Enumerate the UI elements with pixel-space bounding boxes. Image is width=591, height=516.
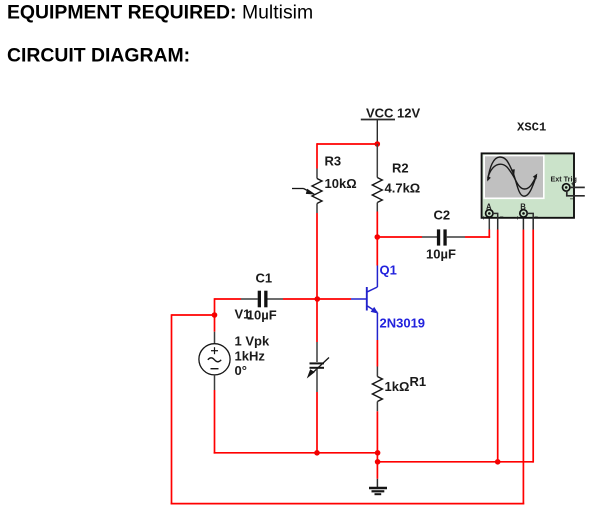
wire R2 to collector node (376, 212, 378, 238)
terminal Ext Trig (563, 184, 570, 191)
svg-text:−: − (534, 214, 538, 221)
terminal A (486, 210, 493, 217)
node VCC junction dot (375, 141, 381, 147)
svg-text:CIRCUIT DIAGRAM:: CIRCUIT DIAGRAM: (7, 45, 190, 67)
wire left vertical (input to bottom return) (171, 314, 173, 504)
svg-text:XSC1: XSC1 (517, 121, 546, 135)
scope trace arrowheads (487, 176, 491, 182)
resistor R3 (potentiometer) (312, 169, 322, 214)
wire variable capacitor to bottom rail (316, 369, 318, 453)
node R3 bottom junction dot (314, 450, 320, 456)
wire input node to left rail (172, 314, 215, 316)
svg-text:−: − (570, 196, 574, 203)
source V1 (199, 344, 230, 375)
wire V1 bottom to bottom rail (214, 375, 216, 454)
label V1 values (235, 334, 270, 378)
svg-text:EQUIPMENT REQUIRED:: EQUIPMENT REQUIRED: (7, 2, 236, 24)
wire emitter to R1 (376, 340, 378, 377)
svg-text:+: + (482, 215, 486, 222)
wire scope A- to ground rail (493, 213, 499, 461)
node base junction dot (315, 296, 321, 302)
wire C1 to V1 top (215, 298, 242, 344)
R3 wiper arrow (292, 189, 316, 195)
wire bottom return (B+ to input node) (171, 503, 525, 505)
scope waveform trace 2 (488, 164, 536, 189)
svg-text:0°: 0° (235, 363, 247, 378)
wire top rail (VCC node) (317, 143, 377, 145)
svg-text:1kHz: 1kHz (235, 348, 266, 363)
wire VCC bar to top rail (376, 120, 378, 145)
wire Ext Trig - stub (567, 191, 585, 196)
svg-text:R3: R3 (325, 154, 342, 169)
scope waveform trace 1 (488, 157, 537, 196)
terminal B (520, 210, 527, 217)
ground (369, 462, 387, 494)
power VCC symbol bar (361, 119, 395, 121)
heading EQUIPMENT REQUIRED: Multisim (7, 2, 313, 24)
wire C2 node to capacitor (377, 236, 437, 238)
wire R1 to ground rail (376, 411, 378, 462)
svg-text:C2: C2 (434, 208, 451, 223)
wire base node (283, 298, 351, 300)
variable capacitor (R3 branch) (307, 358, 329, 379)
wire scope B- to ground rail corner (527, 213, 534, 462)
svg-text:2N3019: 2N3019 (380, 316, 426, 331)
svg-text:1 Vpk: 1 Vpk (235, 334, 270, 349)
svg-text:VCC: VCC (366, 106, 394, 121)
wire R3 to variable capacitor (316, 213, 318, 362)
capacitor C2 (437, 229, 447, 245)
node ground junction dot (375, 459, 381, 465)
wire scope B+ down to bottom wire (522, 217, 524, 504)
resistor R2 (372, 178, 382, 212)
wire C2 to scope channel A (447, 217, 490, 238)
svg-text:1kΩ: 1kΩ (385, 379, 410, 394)
wire bottom rail right (377, 461, 533, 463)
svg-text:R2: R2 (392, 160, 409, 175)
wire Ext Trig + stub (570, 186, 585, 188)
wire R2 branch top stub (376, 144, 378, 178)
svg-text:12V: 12V (397, 106, 420, 121)
resistor R1 (372, 377, 382, 412)
svg-text:−: − (500, 214, 504, 221)
svg-text:C1: C1 (256, 271, 273, 286)
svg-text:Q1: Q1 (380, 263, 397, 278)
node emitter rail junction dot (375, 450, 381, 456)
node scope A- junction dot (495, 459, 501, 465)
node collector/C2 junction dot (375, 234, 381, 240)
svg-text:10µF: 10µF (247, 308, 277, 323)
svg-text:4.7kΩ: 4.7kΩ (385, 181, 421, 196)
svg-text:10kΩ: 10kΩ (325, 176, 357, 191)
svg-text:R1: R1 (410, 374, 427, 389)
svg-text:+: + (516, 215, 520, 222)
svg-text:10µF: 10µF (426, 247, 456, 262)
oscilloscope XSC1 (482, 153, 585, 222)
wire R3 branch top (316, 143, 318, 168)
node input junction dot (212, 312, 218, 318)
transistor Q1 2N3019 (351, 237, 378, 340)
svg-text:Multisim: Multisim (242, 2, 313, 24)
power VCC label (366, 106, 420, 121)
capacitor C1 (241, 291, 283, 308)
wire bottom rail left (214, 452, 378, 454)
